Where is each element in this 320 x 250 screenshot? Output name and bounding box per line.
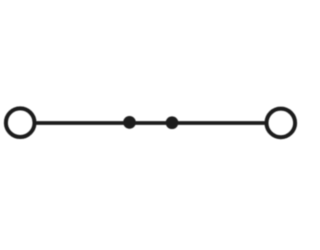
terminal contact (right circle)	[267, 109, 296, 138]
wire	[36, 121, 266, 125]
junction dot (left)	[123, 116, 136, 129]
terminal contact (left circle)	[6, 108, 35, 137]
junction dot (right)	[166, 116, 179, 129]
